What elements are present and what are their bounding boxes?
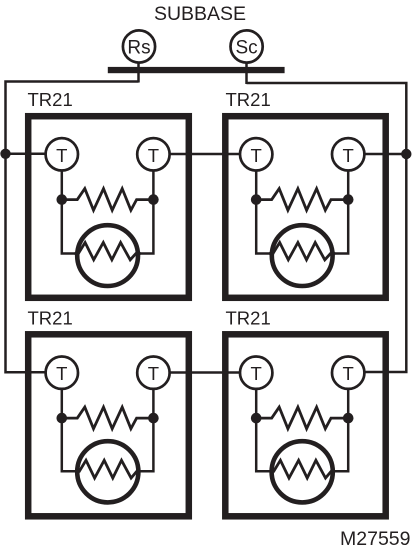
terminal Rs bbox=[123, 30, 155, 62]
svg-text:TR21: TR21 bbox=[226, 89, 271, 110]
svg-text:TR21: TR21 bbox=[28, 89, 73, 110]
node right bus junction bbox=[401, 149, 411, 159]
svg-text:M27559: M27559 bbox=[340, 528, 410, 550]
svg-text:T: T bbox=[343, 145, 354, 166]
subbase bus bar bbox=[108, 67, 285, 73]
wire left bus branch to TR21 box1 bbox=[6, 153, 47, 156]
node box4 right bbox=[343, 413, 354, 424]
wire Rs stem bbox=[137, 62, 140, 82]
svg-text:TR21: TR21 bbox=[28, 308, 73, 329]
terminal T box3 left bbox=[46, 357, 78, 389]
node box2 right bbox=[343, 194, 354, 205]
wire left bus (Rs to lower-left) bbox=[6, 82, 139, 373]
svg-text:T: T bbox=[148, 363, 159, 384]
svg-text:SUBBASE: SUBBASE bbox=[154, 3, 246, 25]
wire right bus (Sc to lower-right) bbox=[247, 83, 407, 372]
resistor box4 bbox=[256, 407, 348, 429]
node left bus junction bbox=[0, 149, 10, 159]
svg-text:T: T bbox=[251, 145, 262, 166]
wire box2 right T to node bbox=[347, 171, 350, 200]
wire box4 left T to node bbox=[255, 389, 258, 418]
node box3 right bbox=[148, 413, 159, 424]
wire box1 node to sensor right bbox=[138, 200, 154, 254]
wire Sc stem bbox=[245, 62, 248, 84]
terminal Sc bbox=[231, 30, 263, 62]
enclosure TR21 box2 bbox=[225, 116, 385, 298]
resistor box2 bbox=[256, 189, 348, 211]
resistor box3 bbox=[62, 407, 154, 429]
wire box4 node to sensor left bbox=[256, 418, 272, 471]
svg-text:T: T bbox=[343, 363, 354, 384]
wire box2 node to sensor left bbox=[256, 200, 272, 254]
wire box3 node to sensor right bbox=[138, 418, 154, 471]
wire box4 node to sensor right bbox=[332, 418, 348, 471]
svg-text:T: T bbox=[148, 145, 159, 166]
svg-text:T: T bbox=[56, 145, 67, 166]
thermistor sensor box4 bbox=[270, 441, 335, 502]
thermistor sensor box3 bbox=[76, 441, 141, 502]
wire right bus branch to TR21 box2 bbox=[364, 153, 406, 156]
node box1 left bbox=[57, 194, 68, 205]
svg-text:Sc: Sc bbox=[236, 38, 258, 59]
wire box2 node to sensor right bbox=[332, 200, 348, 254]
enclosure TR21 box3 bbox=[28, 334, 189, 516]
wire box3 node to sensor left bbox=[62, 418, 78, 471]
svg-text:Rs: Rs bbox=[127, 38, 150, 59]
wire box3 left T to node bbox=[61, 389, 64, 418]
wire box2 left T to node bbox=[255, 171, 258, 200]
wire between box1 and box2 bbox=[169, 153, 241, 156]
node box2 left bbox=[251, 194, 262, 205]
svg-text:T: T bbox=[251, 363, 262, 384]
wire box1 left T to node bbox=[61, 171, 64, 200]
thermistor sensor box1 bbox=[75, 225, 141, 286]
enclosure TR21 box4 bbox=[225, 334, 385, 516]
terminal T box1 right bbox=[137, 138, 169, 170]
terminal T box3 right bbox=[137, 357, 169, 389]
node box3 left bbox=[57, 413, 68, 424]
thermistor sensor box2 bbox=[269, 225, 335, 286]
node box4 left bbox=[251, 413, 262, 424]
wire box1 right T to node bbox=[152, 171, 155, 200]
terminal T box1 left bbox=[46, 138, 78, 170]
node box1 right bbox=[148, 194, 159, 205]
terminal T box4 right bbox=[332, 357, 364, 389]
resistor box1 bbox=[62, 189, 154, 211]
svg-text:T: T bbox=[56, 363, 67, 384]
wire box4 right T to node bbox=[347, 389, 350, 418]
wire box1 node to sensor left bbox=[62, 200, 78, 254]
enclosure TR21 box1 bbox=[28, 116, 189, 298]
wire box3 right T to node bbox=[152, 389, 155, 418]
svg-text:TR21: TR21 bbox=[226, 308, 271, 329]
terminal T box2 left bbox=[240, 138, 272, 170]
wire between box3 and box4 bbox=[170, 371, 241, 374]
terminal T box2 right bbox=[332, 138, 364, 170]
terminal T box4 left bbox=[240, 357, 272, 389]
